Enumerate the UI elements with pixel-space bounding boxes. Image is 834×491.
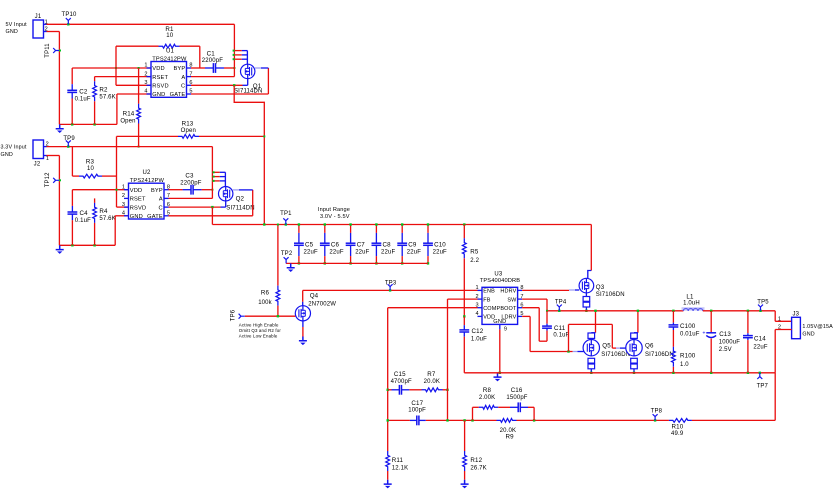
resistor R14 Open — [138, 146, 140, 148]
svg-text:Q6: Q6 — [645, 342, 654, 349]
wire stage1 output jog — [234, 85, 264, 224]
svg-text:2.5V: 2.5V — [719, 347, 732, 353]
svg-text:GND: GND — [130, 214, 143, 220]
wire 3.3V rail — [47, 146, 213, 148]
svg-text:L1: L1 — [686, 293, 694, 300]
svg-text:SI7106DN: SI7106DN — [601, 352, 630, 358]
svg-text:TPS40040DRB: TPS40040DRB — [480, 278, 521, 284]
resistor R5 — [463, 223, 465, 225]
wire VDD U2 line — [72, 189, 128, 191]
svg-text:0.01uF: 0.01uF — [680, 332, 700, 338]
svg-text:U2: U2 — [143, 170, 151, 176]
svg-text:R100: R100 — [680, 353, 696, 360]
wire A2 pin line — [169, 197, 213, 199]
wire C pin line — [191, 84, 243, 86]
svg-text:GND: GND — [152, 92, 165, 98]
svg-text:9: 9 — [504, 326, 507, 332]
inductor L1 — [683, 309, 702, 311]
wire SW rail — [547, 310, 683, 312]
svg-text:RSET: RSET — [152, 75, 168, 81]
svg-text:Open: Open — [120, 119, 135, 125]
capacitor C2 — [71, 68, 73, 84]
svg-text:1: 1 — [122, 184, 125, 190]
resistor R10 — [669, 419, 692, 423]
svg-text:2.2: 2.2 — [470, 258, 479, 264]
svg-text:57.6K: 57.6K — [99, 94, 115, 100]
node C junction — [233, 84, 235, 86]
wire ENB line — [303, 289, 478, 291]
capacitor C5 — [298, 225, 300, 233]
wire U3 GND pin9 — [499, 324, 501, 329]
wire U1 GND to rail — [117, 93, 151, 95]
svg-text:TP7: TP7 — [757, 383, 769, 389]
wire J2 pin1 to ground rail — [47, 155, 60, 157]
svg-text:1.0uF: 1.0uF — [471, 336, 487, 342]
wire feedback line mid — [426, 419, 497, 421]
test point TP6 — [239, 314, 245, 319]
svg-text:TP4: TP4 — [555, 300, 567, 306]
svg-text:10: 10 — [87, 166, 94, 172]
wire Q6 gate bridge — [568, 324, 570, 351]
wire VDD U1 line — [72, 67, 151, 69]
test point TP5 — [759, 310, 761, 312]
wire 5V top rail — [47, 23, 235, 25]
capacitor C16 — [517, 402, 519, 412]
svg-text:Open: Open — [181, 128, 196, 134]
wire LDRV line — [522, 315, 530, 317]
svg-text:Q2: Q2 — [236, 196, 245, 203]
wire RSVD2 line — [117, 206, 129, 208]
wire Q4 gate line — [245, 315, 296, 317]
wire FB line — [448, 298, 478, 300]
svg-text:4700pF: 4700pF — [391, 379, 412, 385]
resistor R4 — [94, 198, 96, 203]
svg-text:TP5: TP5 — [757, 299, 769, 305]
test point TP2 — [284, 257, 289, 263]
test point TP4 — [558, 310, 560, 312]
svg-text:4: 4 — [122, 211, 125, 217]
resistor R13 Open — [117, 135, 179, 137]
svg-text:C17: C17 — [411, 400, 423, 407]
test point TP9 — [67, 145, 69, 147]
svg-text:C2: C2 — [79, 89, 88, 96]
svg-text:C7: C7 — [357, 241, 366, 248]
svg-text:C16: C16 — [511, 387, 523, 394]
svg-text:SW: SW — [507, 297, 517, 303]
resistor R6 — [277, 225, 279, 286]
svg-text:1.05V@15A: 1.05V@15A — [802, 324, 833, 330]
svg-text:TP3: TP3 — [385, 281, 397, 287]
resistor R12 — [464, 420, 466, 451]
svg-text:1500pF: 1500pF — [506, 395, 527, 401]
node C2 junction — [211, 206, 213, 208]
capacitor C17 — [410, 419, 417, 421]
svg-text:R3: R3 — [86, 159, 95, 166]
wire BOOT line — [539, 340, 547, 342]
capacitor C3 — [169, 189, 183, 191]
node R13 junction — [263, 135, 265, 137]
svg-text:SI7114DN: SI7114DN — [226, 206, 254, 212]
svg-text:GND: GND — [802, 331, 814, 337]
svg-text:3: 3 — [122, 202, 125, 208]
capacitor C14 — [747, 310, 749, 312]
wire stage2 output — [211, 207, 213, 224]
svg-text:22uF: 22uF — [407, 250, 421, 256]
svg-text:U3: U3 — [494, 271, 502, 277]
test point TP12 — [53, 178, 59, 183]
svg-text:22uF: 22uF — [304, 250, 318, 256]
svg-text:C4: C4 — [80, 210, 89, 217]
svg-text:3.3V Input: 3.3V Input — [1, 145, 27, 151]
svg-text:2.00K: 2.00K — [479, 395, 495, 401]
svg-text:C3: C3 — [185, 173, 194, 180]
svg-text:TPS2412PW: TPS2412PW — [152, 56, 187, 62]
wire output rail — [703, 310, 775, 312]
Q6 source pads — [631, 358, 638, 363]
svg-text:1: 1 — [144, 63, 147, 69]
svg-text:3.0V - 5.5V: 3.0V - 5.5V — [320, 214, 350, 220]
svg-text:C9: C9 — [408, 241, 417, 248]
svg-text:C13: C13 — [719, 331, 731, 338]
transistor Q4 2N7002W — [295, 306, 310, 321]
svg-text:BOOT: BOOT — [500, 306, 517, 312]
ground rail stage2 — [59, 244, 115, 246]
capacitor C4 — [71, 190, 73, 206]
wire feedback line right — [517, 419, 669, 421]
svg-text:100pF: 100pF — [408, 408, 426, 414]
svg-text:20.0K: 20.0K — [424, 379, 440, 385]
test point TP8 — [654, 419, 656, 421]
connector J3 — [774, 311, 776, 322]
svg-text:C5: C5 — [305, 241, 314, 248]
resistor R3 — [71, 147, 73, 177]
svg-text:ENB: ENB — [483, 289, 495, 295]
svg-text:GND: GND — [6, 29, 18, 35]
wire feedback to output gnd — [692, 419, 775, 421]
wire RSET line — [95, 76, 151, 78]
ground — [56, 245, 64, 249]
ground — [56, 124, 64, 128]
svg-text:TP1: TP1 — [280, 211, 292, 217]
IC U3 TPS40040DRB — [482, 287, 518, 324]
capacitor C8 — [375, 225, 377, 233]
ground — [287, 263, 295, 267]
svg-text:C6: C6 — [331, 241, 340, 248]
svg-text:22uF: 22uF — [381, 250, 395, 256]
wire J1 pin2 to ground rail — [47, 31, 60, 33]
wire A pin line — [191, 76, 234, 78]
svg-text:22uF: 22uF — [355, 250, 369, 256]
svg-text:SI7106DN: SI7106DN — [596, 292, 625, 298]
capacitor C10 — [427, 225, 429, 233]
svg-text:BYP: BYP — [173, 66, 185, 72]
transistor Q1 SI7114DN — [241, 64, 255, 78]
svg-text:GATE: GATE — [170, 92, 186, 98]
test point TP11 — [53, 48, 59, 53]
capacitor C1 — [191, 67, 205, 69]
resistor R11 — [386, 451, 390, 471]
svg-text:GATE: GATE — [147, 214, 163, 220]
svg-text:R7: R7 — [427, 371, 436, 378]
wire SW pin line — [522, 298, 547, 300]
wire A node vertical — [233, 24, 235, 76]
svg-text:GND: GND — [493, 319, 506, 325]
svg-text:R8: R8 — [483, 387, 492, 394]
svg-text:J2: J2 — [34, 162, 41, 168]
svg-text:100k: 100k — [258, 300, 272, 306]
svg-text:C15: C15 — [394, 371, 406, 378]
resistor R1 — [116, 45, 159, 47]
svg-text:3: 3 — [144, 80, 147, 86]
svg-text:U1: U1 — [166, 49, 174, 55]
svg-text:C12: C12 — [472, 328, 484, 335]
wire Q4 source to ground — [302, 321, 304, 327]
svg-text:TP9: TP9 — [63, 136, 75, 142]
capacitor C6 — [324, 225, 326, 233]
svg-text:2200pF: 2200pF — [202, 58, 223, 64]
transistor Q3 SI7106DN — [579, 278, 594, 293]
wire Q3 drain from input rail — [590, 225, 592, 271]
resistor R100 — [672, 347, 676, 367]
svg-text:FB: FB — [483, 297, 491, 303]
svg-text:1: 1 — [476, 285, 479, 291]
wire feedback bottom line — [388, 419, 410, 421]
svg-text:C10: C10 — [434, 241, 446, 248]
svg-text:5V Input: 5V Input — [6, 22, 28, 28]
svg-text:VDD: VDD — [130, 188, 142, 194]
node stage1 output junction — [263, 223, 265, 225]
capacitor C9 — [401, 225, 403, 233]
svg-text:Q4: Q4 — [310, 292, 319, 299]
svg-text:R2: R2 — [99, 86, 108, 93]
connector J2 — [33, 140, 44, 159]
Q5 source pads — [588, 358, 595, 363]
svg-text:Active High Enable: Active High Enable — [239, 322, 279, 327]
capacitor C11 — [546, 311, 548, 324]
wire R13/R3/VDD2 vertical — [116, 136, 118, 207]
IC U1 TPS2412PW — [151, 62, 187, 98]
svg-text:TPS2412PW: TPS2412PW — [130, 178, 165, 184]
svg-text:22uF: 22uF — [329, 250, 343, 256]
wire C2 pin line — [169, 206, 221, 208]
svg-text:C1: C1 — [207, 50, 216, 57]
svg-text:0.1uF: 0.1uF — [75, 218, 91, 224]
svg-text:R6: R6 — [261, 290, 270, 297]
svg-text:1000uF: 1000uF — [719, 340, 740, 346]
ground rail stage1 — [59, 123, 117, 125]
ground — [494, 373, 502, 377]
svg-text:R4: R4 — [99, 208, 108, 215]
IC U2 TPS2412PW — [129, 183, 165, 219]
resistor R9 — [497, 419, 517, 423]
svg-text:TP2: TP2 — [281, 251, 293, 257]
svg-text:J3: J3 — [792, 311, 799, 317]
svg-text:TP8: TP8 — [651, 408, 663, 414]
wire power ground rail — [464, 372, 775, 374]
svg-text:R13: R13 — [182, 120, 194, 127]
svg-text:TP10: TP10 — [62, 12, 77, 18]
capacitor C12 — [463, 316, 465, 325]
Q1 drain pads — [234, 50, 241, 52]
resistor R8 — [472, 407, 474, 420]
svg-text:Q5: Q5 — [602, 342, 611, 349]
svg-text:2: 2 — [122, 193, 125, 199]
transistor Q2 SI7114DN — [219, 187, 233, 201]
svg-text:Omitt Q3 and R2 for: Omitt Q3 and R2 for — [239, 328, 282, 333]
wire RSVD line — [116, 84, 151, 86]
wire HDRV line — [522, 289, 569, 291]
svg-text:4: 4 — [144, 89, 147, 95]
Q2 drain pads — [212, 171, 219, 173]
resistor R7 — [422, 388, 443, 392]
svg-text:TP6: TP6 — [231, 309, 237, 321]
test point TP10 — [67, 23, 69, 25]
capacitor C100 — [672, 310, 674, 312]
capacitor C7 — [350, 225, 352, 233]
capacitor C13 — [710, 310, 712, 312]
svg-text:49.9: 49.9 — [671, 431, 684, 437]
ground — [461, 480, 469, 484]
svg-text:C: C — [181, 84, 185, 90]
svg-text:GND: GND — [1, 152, 13, 158]
svg-text:RSVD: RSVD — [130, 205, 146, 211]
svg-text:A: A — [181, 75, 185, 81]
test point TP7 — [759, 372, 761, 374]
wire input rail — [212, 224, 591, 226]
svg-text:TP11: TP11 — [45, 43, 51, 58]
resistor R2 — [94, 77, 96, 82]
svg-text:4: 4 — [476, 311, 479, 317]
svg-text:26.7K: 26.7K — [470, 466, 486, 472]
connector J1 — [33, 20, 44, 38]
svg-text:HDRV: HDRV — [500, 289, 516, 295]
svg-text:Input Range: Input Range — [318, 207, 350, 213]
svg-text:R12: R12 — [470, 457, 482, 464]
svg-text:2: 2 — [778, 325, 781, 331]
svg-text:2200pF: 2200pF — [180, 180, 201, 186]
svg-text:VDD: VDD — [152, 66, 164, 72]
svg-text:RSVD: RSVD — [152, 84, 168, 90]
test point TP1 — [285, 223, 287, 225]
node VDD3 junction — [463, 315, 465, 317]
svg-text:R14: R14 — [123, 111, 135, 118]
ground — [384, 480, 392, 484]
transistor Q5 SI7106DN — [595, 311, 597, 333]
svg-text:22uF: 22uF — [753, 344, 767, 350]
svg-text:Q3: Q3 — [596, 284, 605, 291]
svg-text:TP12: TP12 — [45, 172, 51, 187]
svg-text:1: 1 — [778, 316, 781, 322]
svg-text:SI7106DN: SI7106DN — [645, 352, 674, 358]
svg-text:R11: R11 — [392, 457, 404, 464]
svg-text:A: A — [159, 197, 163, 203]
svg-text:C: C — [159, 205, 163, 211]
svg-text:C11: C11 — [554, 325, 566, 332]
svg-text:1.0: 1.0 — [680, 362, 689, 368]
svg-text:J1: J1 — [35, 14, 42, 20]
wire 3.3V input vertical — [211, 147, 213, 199]
svg-text:RSET: RSET — [130, 197, 146, 203]
svg-text:BYP: BYP — [151, 188, 163, 194]
svg-text:C8: C8 — [383, 241, 392, 248]
svg-text:1.0uH: 1.0uH — [683, 301, 700, 307]
Q3 source pads — [585, 293, 587, 296]
wire GATE line Q1 — [191, 93, 268, 95]
svg-text:Active Low Enable: Active Low Enable — [239, 333, 278, 338]
svg-text:R10: R10 — [671, 424, 683, 431]
test point TP3 — [389, 289, 391, 291]
wire COMP line — [388, 307, 478, 309]
svg-text:R9: R9 — [505, 433, 514, 440]
svg-text:+: + — [702, 330, 705, 336]
svg-text:2N7002W: 2N7002W — [308, 301, 336, 307]
wire U2 GND to rail — [115, 215, 128, 217]
svg-text:12.1K: 12.1K — [392, 466, 408, 472]
svg-text:0.1uF: 0.1uF — [553, 332, 569, 338]
svg-text:57.6K: 57.6K — [99, 216, 115, 222]
wire cap bank ground rail — [286, 262, 428, 264]
ground — [299, 337, 307, 341]
svg-text:10: 10 — [166, 33, 173, 39]
svg-text:C14: C14 — [754, 336, 766, 343]
svg-text:22uF: 22uF — [433, 250, 447, 256]
capacitor C15 — [387, 389, 389, 391]
transistor Q6 SI7106DN — [637, 311, 639, 333]
wire GATE2 line Q2 — [169, 215, 253, 217]
svg-text:0.1uF: 0.1uF — [75, 97, 91, 103]
svg-text:2: 2 — [144, 71, 147, 77]
svg-text:1: 1 — [46, 156, 49, 162]
svg-text:C100: C100 — [680, 323, 696, 330]
svg-text:R5: R5 — [470, 249, 479, 256]
svg-text:COMP: COMP — [483, 306, 500, 312]
